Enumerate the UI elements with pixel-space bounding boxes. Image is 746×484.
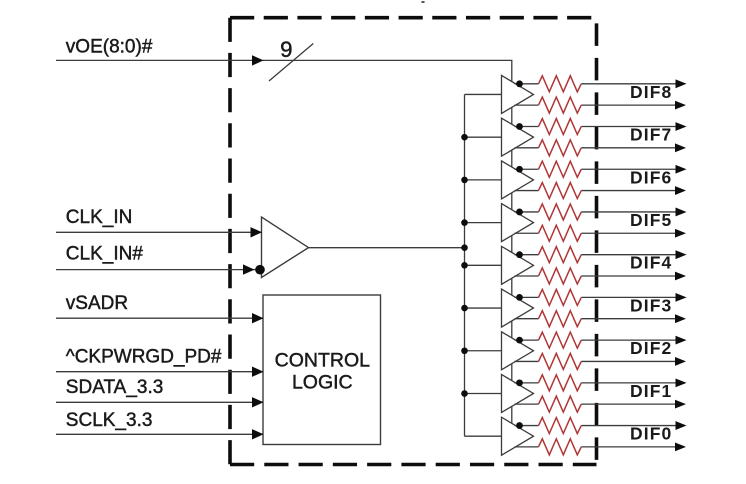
svg-text:DIF4: DIF4 <box>630 253 672 273</box>
svg-text:DIF8: DIF8 <box>630 82 672 102</box>
svg-text:DIF3: DIF3 <box>630 295 672 315</box>
svg-text:DIF6: DIF6 <box>630 167 672 187</box>
svg-text:vSADR: vSADR <box>66 293 128 314</box>
svg-text:SDATA_3.3: SDATA_3.3 <box>66 377 164 398</box>
svg-text:DIF1: DIF1 <box>630 381 672 401</box>
svg-text:CLK_IN: CLK_IN <box>66 207 133 228</box>
svg-text:SCLK_3.3: SCLK_3.3 <box>66 410 153 431</box>
svg-text:vOE(8:0)#: vOE(8:0)# <box>66 36 153 57</box>
svg-text:DIF7: DIF7 <box>630 125 672 145</box>
svg-text:DIF2: DIF2 <box>630 338 672 358</box>
svg-text:DIF0: DIF0 <box>630 424 672 444</box>
svg-text:DIF5: DIF5 <box>630 210 672 230</box>
svg-text:CONTROL: CONTROL <box>275 349 370 371</box>
svg-text:9: 9 <box>280 37 292 62</box>
svg-text:CLK_IN#: CLK_IN# <box>66 243 144 264</box>
svg-text:LOGIC: LOGIC <box>292 372 353 394</box>
svg-text:^CKPWRGD_PD#: ^CKPWRGD_PD# <box>66 347 222 368</box>
